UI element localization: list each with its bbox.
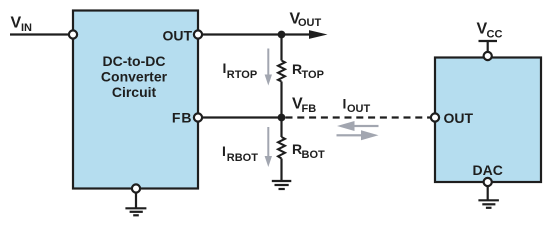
svg-text:RBOT: RBOT <box>227 152 258 164</box>
svg-text:OUT: OUT <box>347 103 371 115</box>
svg-text:TOP: TOP <box>302 69 324 81</box>
current arrow IRTOP <box>265 49 272 86</box>
svg-text:OUT: OUT <box>444 110 474 126</box>
node: converter ground terminal <box>132 184 140 192</box>
svg-text:FB: FB <box>302 103 317 115</box>
svg-text:OUT: OUT <box>298 17 322 29</box>
current arrow IRBOT <box>265 127 272 167</box>
ground (converter) <box>125 192 146 215</box>
VOUT arrowhead <box>309 30 328 39</box>
svg-text:DC-to-DC: DC-to-DC <box>103 53 166 69</box>
svg-text:BOT: BOT <box>302 149 326 161</box>
wire: RTOP to VFB node <box>280 82 282 118</box>
resistor RBOT <box>278 137 285 159</box>
DC-to-DC converter block <box>73 11 198 189</box>
wire: VFB node to RBOT <box>280 118 282 138</box>
svg-text:OUT: OUT <box>162 27 192 43</box>
current arrow IOUT (leftward) <box>337 121 379 131</box>
wire: OUT to VOUT <box>198 33 312 35</box>
svg-text:V: V <box>11 15 22 32</box>
ground (RBOT) <box>272 181 292 189</box>
node: VIN terminal <box>69 30 77 38</box>
svg-text:Converter: Converter <box>101 68 168 84</box>
node: DAC OUT terminal <box>431 113 439 121</box>
wire: RBOT to ground <box>280 159 282 182</box>
node A: VOUT junction <box>278 31 286 39</box>
node VFB <box>278 114 286 122</box>
svg-text:CC: CC <box>487 28 503 40</box>
DAC block <box>435 58 541 183</box>
svg-text:DAC: DAC <box>473 162 503 178</box>
VCC supply bar <box>479 41 498 53</box>
node: OUT terminal <box>194 30 202 38</box>
wire: junction to RTOP <box>280 35 282 61</box>
node: VCC terminal <box>484 52 492 60</box>
node: FB terminal <box>194 113 202 121</box>
wire: VIN input <box>10 33 73 35</box>
svg-text:I: I <box>223 60 227 76</box>
ground (DAC) <box>478 186 499 208</box>
svg-text:RTOP: RTOP <box>227 69 257 81</box>
svg-text:IN: IN <box>21 22 32 34</box>
wire (dashed): VFB to DAC OUT <box>286 116 432 118</box>
svg-text:I: I <box>222 143 226 159</box>
svg-text:Circuit: Circuit <box>112 84 157 100</box>
resistor RTOP <box>278 61 285 82</box>
svg-text:I: I <box>343 95 347 111</box>
node: DAC ground terminal <box>484 178 492 186</box>
svg-text:FB: FB <box>172 110 193 126</box>
current arrow IOUT (rightward) <box>337 130 379 140</box>
wire: FB pin to VFB node <box>198 116 282 118</box>
